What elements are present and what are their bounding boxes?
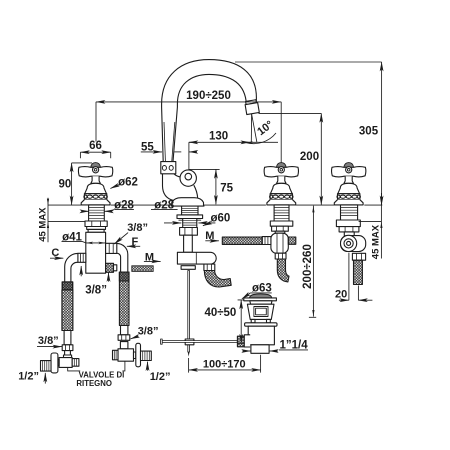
svg-text:C: C <box>51 247 59 259</box>
left hose braided section <box>62 290 73 331</box>
svg-text:ø60: ø60 <box>210 213 230 225</box>
left hose lower pipe <box>64 331 71 345</box>
far-right hose nut <box>352 253 365 260</box>
dim 45max left <box>47 198 49 242</box>
svg-text:ø41: ø41 <box>62 231 82 243</box>
svg-text:3/8”: 3/8” <box>138 326 159 338</box>
right manifold down braided hose <box>277 259 289 282</box>
spout aerator tip <box>245 100 260 115</box>
svg-text:90: 90 <box>59 178 72 190</box>
deck line <box>48 204 382 206</box>
right valve connector <box>134 352 136 359</box>
dim 66 <box>80 151 110 153</box>
pop-up clevis block <box>185 339 194 345</box>
far-right flange washer <box>336 220 360 227</box>
hose connection nut under body <box>204 264 215 270</box>
left check valve outlet cap <box>72 359 79 367</box>
svg-text:RITEGNO: RITEGNO <box>76 379 112 388</box>
spout lower shank threaded <box>183 219 197 228</box>
spout ball joint <box>180 170 196 186</box>
spout body S-curve <box>163 174 174 201</box>
leader 3/8 upper <box>114 233 128 244</box>
leader M2 <box>205 240 219 242</box>
right check valve outlet cap <box>113 350 119 360</box>
leader 1/2 left <box>44 373 46 384</box>
leader M1 <box>144 260 161 262</box>
dim 200 <box>320 113 322 204</box>
svg-text:F: F <box>132 236 139 248</box>
svg-text:M: M <box>205 230 214 242</box>
dim 90 <box>71 163 73 205</box>
left hose nut <box>62 345 73 351</box>
svg-text:45 MAX: 45 MAX <box>370 224 381 259</box>
svg-text:3/8”: 3/8” <box>85 285 107 297</box>
drain neck <box>250 301 272 304</box>
svg-text:3/8”: 3/8” <box>38 335 59 347</box>
dim 55 <box>141 151 162 153</box>
drain tailpipe <box>251 345 269 354</box>
svg-text:1”1/4: 1”1/4 <box>280 340 309 352</box>
far-right handle cross <box>332 163 366 205</box>
left hose bend from manifold <box>65 253 78 282</box>
svg-text:ø28: ø28 <box>154 199 174 211</box>
spout tube inner wall lines <box>164 122 165 161</box>
drain lever packing nut <box>237 336 244 347</box>
leaders valvole di ritegno <box>68 368 81 371</box>
left hose adapter <box>65 351 71 355</box>
svg-text:100÷170: 100÷170 <box>203 358 246 370</box>
leader o62 <box>110 184 119 188</box>
dim 190-250 <box>96 101 281 103</box>
left manifold left hex <box>78 253 86 262</box>
right hose bend from manifold <box>117 243 128 272</box>
svg-text:305: 305 <box>359 126 379 138</box>
svg-text:40÷50: 40÷50 <box>204 307 236 319</box>
right hose braided section <box>119 281 129 326</box>
right hose lower pipe <box>121 326 128 335</box>
right manifold neck <box>275 231 285 233</box>
right manifold bottom collar <box>275 253 286 259</box>
svg-text:130: 130 <box>209 131 228 143</box>
leader 1/2 right <box>147 362 149 371</box>
svg-text:M: M <box>145 251 154 263</box>
rod guide washer <box>181 266 195 270</box>
left check valve body <box>64 355 72 358</box>
leader 3/8 lower pair <box>80 266 82 276</box>
svg-text:ø28: ø28 <box>114 199 134 211</box>
far-right braided hose <box>354 260 363 284</box>
left hose crimp ferrule <box>62 282 72 290</box>
svg-text:75: 75 <box>220 182 233 194</box>
pop-up vertical rod <box>188 271 190 353</box>
far-right shank threaded <box>341 205 358 220</box>
svg-text:ø63: ø63 <box>252 283 272 295</box>
svg-text:1/2”: 1/2” <box>18 371 39 383</box>
spout lower flange <box>177 215 203 219</box>
svg-text:55: 55 <box>141 141 154 153</box>
spout collar ring nut <box>161 162 176 174</box>
right manifold right stub <box>288 237 296 244</box>
spout shank nut <box>180 228 198 236</box>
horizontal braided hose to right manifold <box>222 237 262 244</box>
svg-text:190÷250: 190÷250 <box>186 90 231 102</box>
right handle washer <box>270 221 293 226</box>
dim 20 <box>339 299 349 301</box>
svg-text:20: 20 <box>335 289 347 301</box>
far-right nut <box>339 227 359 232</box>
pop-up horizontal rod <box>162 341 237 343</box>
M1 hose swatch <box>132 266 153 272</box>
left handle cross <box>79 163 113 205</box>
dim 305 <box>381 62 383 205</box>
spout gooseneck tube <box>162 60 257 162</box>
right valve wall stub threaded <box>141 351 152 360</box>
right hose adapter <box>120 342 128 349</box>
left valve wall flange <box>51 353 58 373</box>
drain collar bar <box>245 323 277 326</box>
svg-text:200: 200 <box>300 151 319 163</box>
dim 130 <box>189 141 278 143</box>
far-right pipe <box>344 232 354 236</box>
leader C <box>50 257 63 259</box>
svg-text:3/8”: 3/8” <box>127 222 148 234</box>
left handle mounting nut <box>85 221 107 227</box>
right valve wall flange <box>136 343 141 367</box>
far-right elbow boss circles <box>341 235 357 251</box>
svg-text:66: 66 <box>89 140 102 152</box>
svg-text:1/2”: 1/2” <box>150 371 171 383</box>
leader o60 <box>203 223 211 226</box>
right hose crimp ferrule <box>119 272 129 281</box>
pop-up drain flange <box>244 298 277 301</box>
svg-text:200÷260: 200÷260 <box>302 244 314 289</box>
drain lever elbow notch <box>244 335 250 347</box>
left manifold lower-right stub <box>106 263 114 272</box>
left manifold upper-right hex <box>106 243 117 253</box>
dim 100-170 <box>189 369 261 371</box>
drain lock nut body <box>248 326 274 345</box>
leader 1 1/4 <box>279 349 308 351</box>
svg-text:45 MAX: 45 MAX <box>37 207 48 242</box>
leader o63 <box>250 292 271 294</box>
angle 10 deg wedge <box>250 114 252 142</box>
dim 200-260 <box>312 206 314 317</box>
left valve wall stub threaded <box>41 361 52 372</box>
spout bell base <box>172 198 204 206</box>
spout deck shank threaded <box>182 206 198 215</box>
drain body with overflow window <box>247 304 274 319</box>
leader o41 <box>62 242 86 243</box>
left handle washer <box>87 227 106 230</box>
right handle cross <box>264 163 298 205</box>
horizontal rod end cap <box>161 339 163 344</box>
svg-text:ø62: ø62 <box>118 176 138 188</box>
leader o28 left <box>114 208 134 210</box>
svg-text:10°: 10° <box>255 119 276 139</box>
right handle nut <box>272 226 289 231</box>
right check valve body <box>118 349 134 361</box>
left handle shank threaded <box>89 205 105 221</box>
right hose nut <box>118 335 130 341</box>
spout below-deck body capsule <box>177 252 216 264</box>
dim 75 <box>215 169 217 204</box>
spout tail pipe <box>184 235 193 252</box>
leader 3/8 left valve <box>37 346 62 348</box>
right handle shank threaded <box>274 205 289 221</box>
drain braided hose curl <box>204 271 231 288</box>
right manifold body <box>271 233 288 253</box>
leader F <box>127 245 140 247</box>
leader o28 mid <box>151 208 178 210</box>
pop-up plug dome <box>249 294 271 298</box>
far-right elbow body <box>341 236 366 252</box>
dim 45max right <box>380 193 382 259</box>
leader 3/8 right valve <box>131 336 139 339</box>
right manifold left hex <box>262 237 271 245</box>
left manifold body <box>86 232 106 273</box>
drain body feet <box>251 319 255 322</box>
left valve connector <box>58 360 59 366</box>
dim 40-50 <box>240 300 242 343</box>
